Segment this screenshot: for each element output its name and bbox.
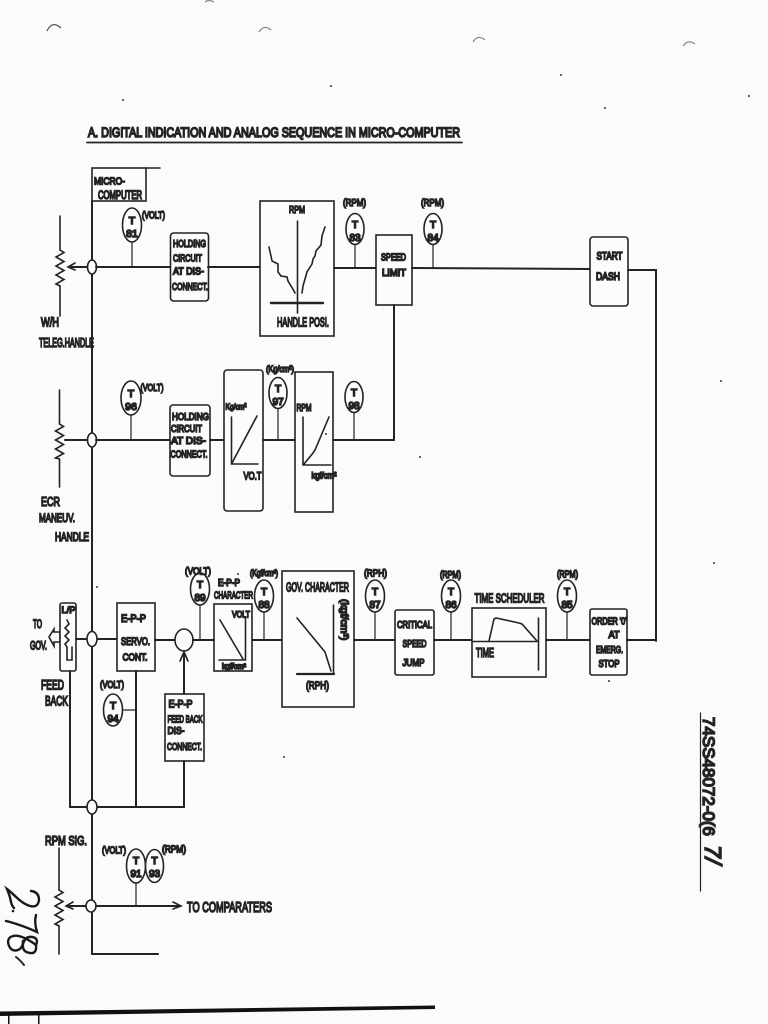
svg-text:97: 97 xyxy=(272,397,284,408)
graph box e-p-p character xyxy=(214,604,252,671)
wire to comparaters arrow xyxy=(96,900,272,916)
meter T81 xyxy=(123,208,166,267)
svg-text:(Kg/cm²): (Kg/cm²) xyxy=(266,364,294,375)
svg-text:LIMIT: LIMIT xyxy=(382,267,407,279)
svg-text:CONNECT.: CONNECT. xyxy=(172,281,208,293)
svg-text:VO.T: VO.T xyxy=(244,471,262,483)
L/P feedback box xyxy=(60,603,76,671)
wire L/P down xyxy=(69,671,71,807)
label feed back xyxy=(41,677,68,709)
svg-text:TELEG.HANDLE: TELEG.HANDLE xyxy=(39,336,94,350)
svg-text:kgf/cm²: kgf/cm² xyxy=(312,471,337,482)
svg-text:VOLT: VOLT xyxy=(232,610,250,621)
svg-text:E-P-P: E-P-P xyxy=(121,613,146,625)
svg-text:(VOLT): (VOLT) xyxy=(185,566,211,578)
svg-text:CIRCUIT: CIRCUIT xyxy=(173,253,202,265)
meter T83 xyxy=(343,197,366,268)
graph box kg/cm2 vs volt xyxy=(224,370,263,511)
wire row1 segment A xyxy=(96,266,170,268)
svg-text:W/H: W/H xyxy=(41,315,59,330)
svg-text:AT: AT xyxy=(609,629,621,641)
handwritten page number 278 xyxy=(6,889,39,953)
svg-text:CHARACTER: CHARACTER xyxy=(214,590,253,602)
scan artifacts xyxy=(47,1,695,47)
svg-text:kgf/cm²: kgf/cm² xyxy=(222,662,246,671)
potentiometer RPM sig xyxy=(55,848,63,954)
wire row1 arrow to pot xyxy=(68,263,87,270)
svg-text:(RPH): (RPH) xyxy=(306,680,329,692)
svg-text:SPEED: SPEED xyxy=(403,638,427,650)
svg-text:ECR: ECR xyxy=(41,494,60,509)
svg-text:L/P: L/P xyxy=(62,605,76,616)
meter T89 xyxy=(185,566,211,641)
svg-text:91: 91 xyxy=(130,869,142,880)
summing junction xyxy=(175,629,193,651)
meter T84 xyxy=(421,197,444,268)
svg-text:96: 96 xyxy=(125,401,137,413)
start dash box xyxy=(590,237,628,306)
svg-text:AT DIS-: AT DIS- xyxy=(171,435,206,447)
wire row3 segment G xyxy=(627,639,656,641)
speed limit box xyxy=(376,235,412,305)
svg-text:TO: TO xyxy=(33,619,42,631)
svg-text:MANEUV.: MANEUV. xyxy=(39,511,75,525)
svg-text:(VOLT): (VOLT) xyxy=(102,846,126,857)
svg-text:87: 87 xyxy=(369,600,381,611)
potentiometer ECR maneuv. handle xyxy=(39,390,89,544)
svg-text:98: 98 xyxy=(348,401,360,412)
svg-text:FEED BACK: FEED BACK xyxy=(168,714,203,726)
svg-text:T: T xyxy=(197,580,203,591)
wire summing junction to character box xyxy=(193,639,214,641)
micro-computer box xyxy=(92,168,160,202)
wire row3 segment E xyxy=(434,639,472,641)
svg-text:BACK: BACK xyxy=(45,693,68,709)
svg-text:RPM: RPM xyxy=(297,403,312,414)
svg-text:A. DIGITAL INDICATION AND ANAL: A. DIGITAL INDICATION AND ANALOG SEQUENC… xyxy=(88,125,460,140)
svg-text:T: T xyxy=(564,587,570,598)
svg-text:CONT.: CONT. xyxy=(123,652,148,664)
wire row3 segment B xyxy=(155,639,175,641)
svg-text:START: START xyxy=(597,251,623,263)
node junction row2 xyxy=(88,433,97,447)
svg-text:T: T xyxy=(372,587,378,598)
wire row2 segment B xyxy=(210,439,224,441)
svg-text:ORDER '0': ORDER '0' xyxy=(592,617,627,628)
svg-text:T: T xyxy=(275,384,281,395)
meter T88 xyxy=(250,568,278,640)
wire row1 segment D xyxy=(412,268,590,269)
svg-text:81: 81 xyxy=(126,228,138,240)
order 0 at emerg. stop box xyxy=(590,609,627,675)
svg-text:T: T xyxy=(128,388,135,400)
holding circuit at disconnect box 2 xyxy=(170,405,210,476)
svg-text:93: 93 xyxy=(149,869,161,880)
svg-text:T: T xyxy=(351,388,357,399)
svg-text:(RPM): (RPM) xyxy=(421,197,444,209)
drawing number sidebar line xyxy=(700,713,702,891)
svg-text:CRITICAL: CRITICAL xyxy=(397,619,432,631)
holding circuit at disconnect box 1 xyxy=(171,233,209,301)
wire row3 segment D xyxy=(354,639,395,641)
wire bottom feedback bus xyxy=(70,806,184,808)
svg-text:HANDLE POSI.: HANDLE POSI. xyxy=(277,315,329,330)
svg-text:74SS48072-0(6: 74SS48072-0(6 xyxy=(699,717,717,836)
svg-text:COMPUTER: COMPUTER xyxy=(98,190,142,202)
svg-text:CIRCUIT: CIRCUIT xyxy=(171,423,202,435)
wire row2 segment A xyxy=(96,439,170,441)
node junction row4 xyxy=(86,900,96,912)
wire row2 pot to junction xyxy=(65,439,87,441)
node junction row3 xyxy=(87,632,97,647)
svg-text:HANDLE: HANDLE xyxy=(55,530,89,544)
wire row3 segment C xyxy=(252,639,282,641)
wire servo cont down xyxy=(135,671,137,807)
svg-text:94: 94 xyxy=(107,714,119,725)
svg-text:T: T xyxy=(448,587,454,598)
svg-text:HOLDING: HOLDING xyxy=(172,411,209,423)
to gov. arrow xyxy=(30,619,60,653)
meter T86 xyxy=(440,570,461,640)
node junction row1 xyxy=(88,260,97,274)
svg-text:(RPM): (RPM) xyxy=(343,197,366,209)
svg-text:(Kgf/cm²): (Kgf/cm²) xyxy=(250,568,278,578)
meter T87 xyxy=(364,568,387,641)
wire speed limit down xyxy=(393,305,395,440)
svg-text:AT DIS-: AT DIS- xyxy=(173,266,204,278)
svg-text:T: T xyxy=(110,701,116,712)
svg-text:E-P-P: E-P-P xyxy=(169,699,193,711)
critical speed jump box xyxy=(395,610,434,675)
wire feedback disconnect down xyxy=(183,761,185,807)
meter T93 xyxy=(146,845,187,883)
wire row3 segment A xyxy=(76,638,117,640)
wire row4 arrow to pot xyxy=(66,902,86,909)
wire: bus bottom turn xyxy=(92,953,158,955)
svg-text:CONNECT.: CONNECT. xyxy=(167,741,202,753)
graph box RPM vs handle position xyxy=(260,201,334,336)
title xyxy=(87,125,462,143)
svg-text:T: T xyxy=(133,856,139,867)
svg-text:83: 83 xyxy=(349,233,361,244)
meter T91 xyxy=(102,846,146,907)
svg-text:JUMP: JUMP xyxy=(403,657,425,669)
wire row2 segment D xyxy=(333,439,394,441)
node junction feedback bus xyxy=(87,800,97,814)
gov. character box xyxy=(282,571,354,707)
e-p-p character label xyxy=(214,578,253,602)
svg-text:RPM SIG.: RPM SIG. xyxy=(45,833,87,848)
svg-text:GOV.: GOV. xyxy=(30,641,47,653)
svg-text:DIS-: DIS- xyxy=(168,725,185,737)
svg-text:GOV. CHARACTER: GOV. CHARACTER xyxy=(286,581,349,595)
wire row2 segment C xyxy=(263,439,295,441)
wire: main vertical bus xyxy=(91,201,93,954)
svg-text:84: 84 xyxy=(427,233,439,244)
meter T97 xyxy=(266,364,294,440)
potentiometer W/H teleg. handle xyxy=(39,216,94,350)
time scheduler box xyxy=(472,608,546,677)
svg-text:TIME: TIME xyxy=(476,646,494,660)
wire feedback disconnect up arrow xyxy=(180,652,188,694)
svg-text:RPM: RPM xyxy=(289,204,305,216)
svg-text:85: 85 xyxy=(561,600,573,611)
svg-text:Kg/cm²: Kg/cm² xyxy=(226,402,247,412)
svg-text:T: T xyxy=(430,220,436,231)
svg-text:T: T xyxy=(261,587,267,598)
svg-text:CONNECT.: CONNECT. xyxy=(171,449,208,461)
svg-text:(RPM): (RPM) xyxy=(557,570,578,581)
wire row1 segment B xyxy=(208,266,260,268)
meter T98 xyxy=(345,382,363,441)
svg-text:TO COMPARATERS: TO COMPARATERS xyxy=(187,900,272,916)
svg-text:(VOLT): (VOLT) xyxy=(142,211,165,222)
svg-text:T: T xyxy=(352,220,358,231)
svg-text:FEED: FEED xyxy=(41,677,64,693)
svg-text:(kgf/cm²): (kgf/cm²) xyxy=(338,599,350,640)
meter T85 xyxy=(557,570,578,641)
meter T96 xyxy=(121,381,164,440)
svg-text:SPEED: SPEED xyxy=(381,252,406,264)
svg-text:(RPH): (RPH) xyxy=(364,568,387,580)
graph box RPM vs kgf/cm2 xyxy=(295,372,337,512)
svg-text:T: T xyxy=(151,856,157,867)
wire start dash to right and down xyxy=(628,270,656,641)
wire row3 segment F xyxy=(546,639,590,641)
svg-text:(RPM): (RPM) xyxy=(162,845,186,856)
svg-text:(RPM): (RPM) xyxy=(440,570,461,581)
svg-text:86: 86 xyxy=(445,600,457,611)
svg-text:STOP: STOP xyxy=(599,658,620,670)
svg-text:E-P-P: E-P-P xyxy=(218,578,240,589)
svg-text:88: 88 xyxy=(258,600,270,611)
svg-text:(VOLT): (VOLT) xyxy=(100,680,124,691)
svg-text:MICRO-: MICRO- xyxy=(94,176,125,188)
svg-text:(VOLT): (VOLT) xyxy=(141,382,164,394)
svg-text:T: T xyxy=(129,215,136,227)
svg-text:DASH: DASH xyxy=(596,271,620,283)
svg-text:TIME SCHEDULER: TIME SCHEDULER xyxy=(475,591,545,606)
meter T94 xyxy=(100,680,136,726)
svg-text:HOLDING: HOLDING xyxy=(173,238,206,250)
svg-text:EMERG.: EMERG. xyxy=(596,645,623,656)
svg-text:89: 89 xyxy=(194,593,206,604)
e-p-p feed back disconnect box xyxy=(165,694,204,761)
svg-text:SERVO.: SERVO. xyxy=(121,636,150,648)
handwritten comma mark xyxy=(16,957,24,965)
e-p-p servo cont box xyxy=(117,603,155,671)
wire row1 segment C xyxy=(334,267,376,269)
svg-text:7/: 7/ xyxy=(700,845,726,867)
